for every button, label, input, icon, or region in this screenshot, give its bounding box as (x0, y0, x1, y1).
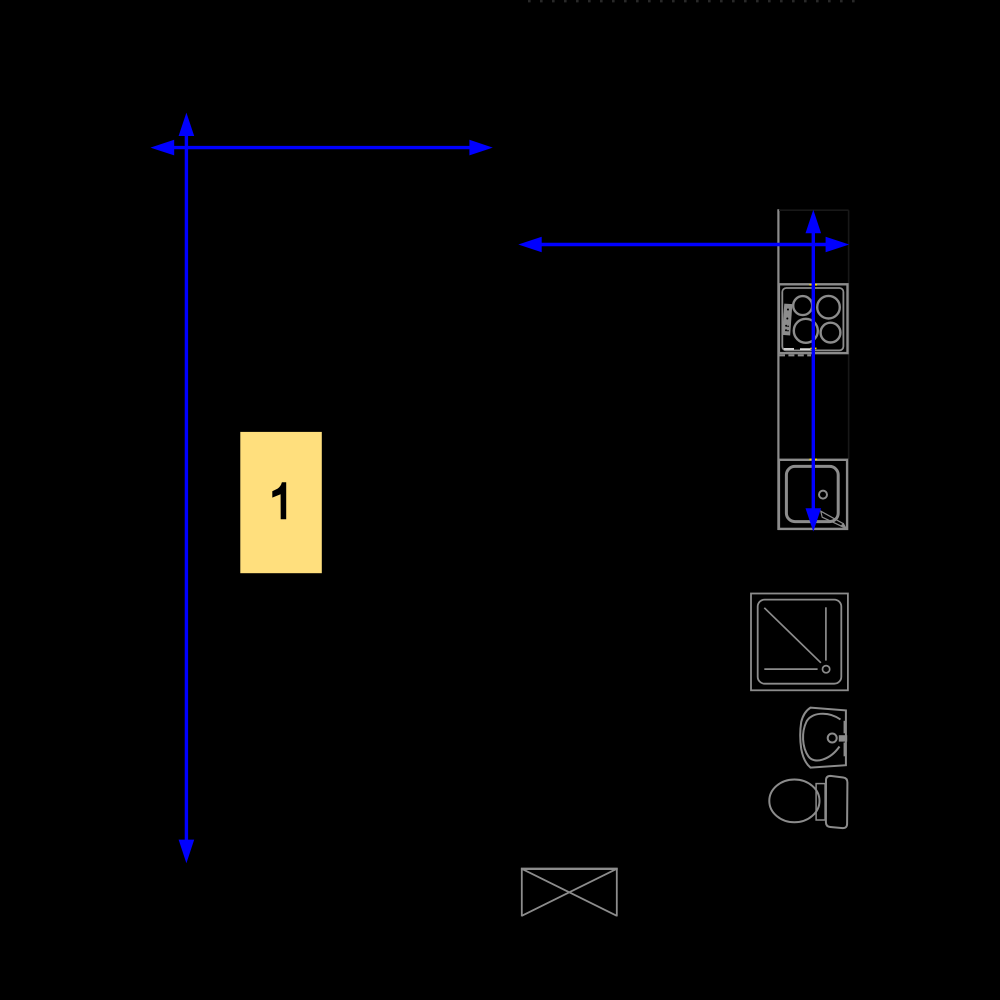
dimension arrow horizontal top-left (150, 140, 492, 156)
burner bottom-right (821, 323, 841, 343)
window symbol (521, 868, 618, 916)
burner bottom-left (794, 319, 818, 343)
basin right inner line (843, 721, 845, 734)
room label 1 (yellow) (240, 432, 321, 573)
basin bowl (803, 714, 840, 761)
dimension arrow vertical kitchen (806, 210, 822, 532)
stove (cooktop) (779, 284, 848, 353)
toilet (769, 776, 847, 828)
basin drain (828, 734, 837, 743)
shower tray (751, 594, 848, 691)
shower drain (823, 666, 830, 673)
dashed line below stove (779, 354, 811, 356)
shower bottom line (764, 668, 817, 670)
stove control panel (782, 304, 792, 336)
kitchen counter outline (778, 209, 848, 530)
washbasin (800, 708, 847, 768)
toilet bowl (769, 780, 819, 823)
burner top-right (817, 296, 840, 319)
basin faucet (839, 735, 847, 741)
sink drain (819, 491, 827, 499)
dimension arrow horizontal kitchen (518, 237, 849, 253)
kitchen sink module (779, 460, 847, 529)
toilet tank (826, 776, 848, 828)
stove highlight dashes (784, 348, 811, 350)
burner top-left (793, 296, 812, 315)
sink tap (821, 511, 847, 529)
yellow tick marks (810, 285, 818, 460)
shower right vertical line (825, 607, 827, 660)
toilet seat connector (816, 784, 825, 820)
dimension arrow vertical left (179, 113, 195, 864)
top wall dashed line (528, 0, 862, 2)
shower diagonal (764, 608, 821, 663)
